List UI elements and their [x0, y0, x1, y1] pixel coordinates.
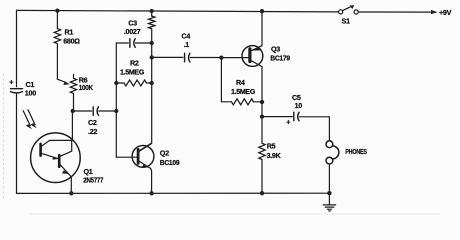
- svg-text:Q2: Q2: [160, 149, 169, 158]
- wire center resistor top lead: [151, 11, 153, 16]
- wire C5 left lead: [262, 116, 292, 118]
- node C5 / R5: [260, 114, 264, 118]
- wire Q3 collector drop: [261, 67, 263, 117]
- Q3 collector diagonal: [252, 61, 263, 67]
- wire C3/R2 left riser (x=116.3): [115, 43, 117, 157]
- wire Q1 emitter to bottom rail: [70, 177, 72, 193]
- Q1 inner T1 collector: [42, 140, 72, 146]
- wire R1 bottom lead: [56, 44, 58, 80]
- wire bottom rail: [17, 192, 330, 194]
- wire R4 riser: [221, 58, 231, 102]
- wire C4 right lead: [190, 57, 221, 59]
- node Q2 emitter / rail: [149, 191, 153, 195]
- svg-text:+: +: [286, 117, 290, 126]
- wire left rail lower: [16, 93, 18, 193]
- svg-text:680Ω: 680Ω: [63, 37, 80, 46]
- light arrow 2: [28, 110, 35, 125]
- svg-text:.22: .22: [88, 127, 97, 136]
- svg-text:R2: R2: [130, 58, 139, 67]
- Q2 base bar: [137, 149, 140, 163]
- Q1 inner T2 emitter with arrow: [60, 165, 71, 177]
- svg-text:Q3: Q3: [271, 45, 280, 54]
- wire top rail right section with supply arrow: [358, 11, 432, 13]
- svg-text:3.9K: 3.9K: [267, 151, 282, 160]
- Q3 base bar: [248, 49, 251, 62]
- node C2/R2C3 left/Q2 base: [114, 109, 118, 113]
- Q1 envelope circle: [31, 133, 81, 183]
- Q3 emitter diagonal with PNP arrow: [252, 46, 262, 51]
- wire C2 left lead: [73, 110, 92, 112]
- wire center riser to Q2 collector: [139, 29, 152, 151]
- svg-text:BC109: BC109: [160, 158, 180, 167]
- node R2 right: [150, 81, 154, 85]
- wire Q3 base lead: [221, 57, 248, 59]
- Q1 inner T2 base bar: [58, 155, 61, 167]
- svg-text:1.5MEG: 1.5MEG: [120, 67, 145, 76]
- node Q1 emitter / bottom rail: [69, 191, 73, 195]
- Q2 envelope: [132, 146, 154, 168]
- wire C3 left lead: [116, 42, 128, 44]
- wire top rail left section: [17, 10, 339, 12]
- node R2 left: [114, 81, 118, 85]
- wire C2 right lead: [99, 110, 117, 112]
- wire R5 bottom lead: [261, 160, 263, 194]
- capacitor C1: [11, 89, 23, 93]
- Q1 inner T1 base bar: [39, 144, 42, 156]
- Q1 inner T1 emitter: [42, 153, 58, 158]
- svg-text:.1: .1: [184, 40, 190, 49]
- resistor R4: [232, 99, 254, 105]
- svg-text:R4: R4: [236, 78, 245, 87]
- node top rail center: [150, 9, 154, 13]
- capacitor C3: [130, 39, 135, 48]
- svg-text:+: +: [9, 77, 13, 86]
- svg-text:2N5777: 2N5777: [83, 175, 103, 184]
- svg-text:BC179: BC179: [270, 53, 290, 62]
- Q1 inner collector drop to T2: [60, 140, 71, 156]
- svg-text:C2: C2: [88, 118, 97, 127]
- ground: [323, 193, 335, 211]
- transistor Q2 BC109: [132, 144, 154, 169]
- resistor R5: [259, 143, 265, 159]
- resistor R1: [54, 29, 60, 44]
- svg-text:100: 100: [25, 89, 36, 98]
- Q3 envelope: [242, 46, 263, 67]
- phototransistor Q1: [31, 133, 81, 183]
- wire C5 right lead to phones: [299, 117, 329, 141]
- resistor R3 (unlabeled): [149, 16, 155, 29]
- node C4 left: [150, 55, 154, 59]
- wire R5 top lead: [261, 117, 263, 144]
- svg-text:S1: S1: [342, 17, 350, 26]
- wire phones to rail: [328, 164, 330, 193]
- capacitor C2: [93, 107, 98, 116]
- light arrow 1: [23, 111, 30, 126]
- node R5 / rail: [260, 191, 264, 195]
- Q2 collector diagonal: [139, 144, 151, 152]
- svg-text:PHONES: PHONES: [345, 147, 367, 156]
- svg-text:100K: 100K: [79, 83, 94, 92]
- scan artifact: faint bottom streak: [30, 213, 440, 215]
- phones jack symbol: [326, 141, 339, 164]
- node C3 right: [150, 41, 154, 45]
- capacitor C4: [185, 53, 190, 62]
- node Q3 emitter / top rail: [260, 9, 264, 13]
- svg-text:+9V: +9V: [439, 8, 452, 17]
- node R6/C2/Q1 collector: [71, 109, 75, 113]
- wire R1 top lead: [56, 11, 58, 29]
- wire Q2 emitter to rail: [151, 168, 152, 193]
- node top rail / R1: [55, 8, 59, 12]
- transistor Q3 BC179: [242, 46, 263, 67]
- resistor R2: [124, 80, 147, 86]
- wiper arrow onto R6: [57, 79, 65, 82]
- node phones / rail / ground: [327, 191, 331, 195]
- wire R4 right lead: [254, 101, 263, 103]
- node R4 / Q3 collector: [260, 100, 264, 104]
- wire R6 bottom lead: [73, 94, 75, 112]
- wire C3 right lead: [136, 42, 152, 44]
- wire Q1 collector riser: [71, 111, 73, 140]
- switch S1: [339, 5, 359, 14]
- svg-text:.0027: .0027: [124, 27, 141, 36]
- supply arrowhead: [431, 10, 438, 14]
- wire Q2 base lead: [116, 156, 137, 158]
- wire R2 leads: [116, 82, 151, 84]
- svg-text:1.5MEG: 1.5MEG: [231, 87, 256, 96]
- resistor R6 (with top stub): [73, 74, 75, 78]
- svg-text:R5: R5: [267, 141, 276, 150]
- capacitor C5: [294, 112, 299, 121]
- Q2 emitter diagonal with arrow: [139, 161, 150, 168]
- scan artifact: faint left dashed edge: [3, 74, 5, 198]
- wire Q3 emitter riser to rail: [261, 11, 263, 46]
- wire left rail upper: [16, 10, 18, 86]
- node C4/R4/Q3 base: [219, 55, 223, 59]
- svg-text:R1: R1: [65, 27, 74, 36]
- svg-text:10: 10: [295, 101, 303, 110]
- wire C4 left lead: [152, 56, 183, 58]
